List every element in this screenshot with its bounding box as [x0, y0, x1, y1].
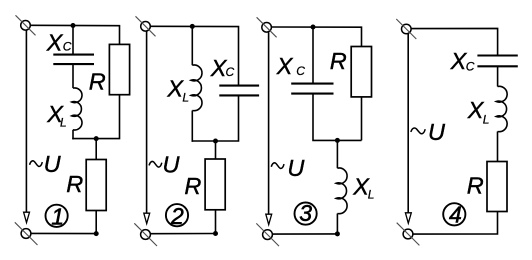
inductor XL series circuit 3	[336, 168, 347, 214]
wire series inductor upper lead circuit 3	[336, 140, 338, 168]
wire bottom rail circuit 3	[273, 233, 338, 235]
wire right branch lower lead and parallel bottom rail circuit 1	[72, 95, 119, 139]
wire capacitor lower lead and parallel bottom rail circuit 3	[313, 94, 362, 141]
resistor R parallel circuit 1	[109, 44, 129, 94]
wire top rail circuit 3 with right branch upper lead	[272, 27, 362, 47]
svg-text:L: L	[182, 91, 189, 105]
voltage arrow line circuit 4	[407, 34, 409, 213]
terminal bottom-left circuit 3	[256, 223, 279, 246]
terminal bottom-left circuit 4	[397, 223, 420, 246]
terminal bottom-left circuit 1	[15, 222, 38, 245]
wire series resistor lower lead circuit 2	[215, 210, 217, 234]
svg-text:C: C	[63, 39, 72, 53]
wire top rail circuit 4 with series branch upper lead	[411, 28, 497, 55]
voltage arrowhead circuit 1	[24, 212, 30, 222]
svg-text:C: C	[226, 65, 235, 79]
wire series resistor upper lead circuit 2	[215, 141, 217, 159]
resistor R series circuit 1	[86, 160, 106, 211]
wire bottom rail circuit 1	[31, 232, 96, 234]
svg-text:R: R	[330, 48, 347, 74]
svg-text:L: L	[483, 112, 490, 126]
svg-text:C: C	[466, 59, 475, 73]
terminal top-left circuit 1	[16, 15, 36, 35]
inductor XL circuit 2	[191, 65, 202, 111]
node junction dot parallel bottom circuit 1	[94, 136, 99, 141]
voltage arrowhead circuit 2	[144, 213, 150, 223]
svg-text:1: 1	[51, 203, 64, 229]
resistor R parallel circuit 3	[351, 47, 371, 97]
wire resistor lower lead and bottom rail circuit 4	[413, 212, 498, 235]
node junction dot bottom rail circuit 3	[335, 231, 340, 236]
capacitor XC circuit 3	[291, 84, 333, 94]
label circled number 4	[443, 201, 465, 227]
node junction dot bottom rail circuit 2	[213, 231, 218, 236]
svg-text:L: L	[60, 116, 67, 130]
inductor XL circuit 1	[72, 88, 82, 130]
svg-text:C: C	[296, 64, 305, 78]
wire bottom rail circuit 2	[151, 233, 216, 235]
label XC circuit 1	[46, 29, 72, 55]
svg-text:2: 2	[170, 203, 184, 229]
svg-text:4: 4	[449, 201, 462, 227]
node junction dot top rail circuit 3	[311, 25, 316, 30]
wire right branch lower lead circuit 3	[361, 97, 363, 140]
label XL circuit 4	[467, 97, 490, 126]
wire capacitor C1 upper lead	[72, 26, 74, 55]
label circled number 1	[46, 203, 68, 229]
wire capacitor branch upper lead circuit 3	[312, 27, 314, 84]
label ~U circuit 3	[271, 155, 305, 181]
label XL circuit 3	[352, 173, 374, 201]
label XC circuit 2	[210, 55, 235, 81]
wire top rail circuit 2 with capacitor branch upper lead	[150, 26, 238, 85]
svg-text:R: R	[467, 173, 484, 199]
svg-text:L: L	[368, 188, 375, 202]
wire inductor to parallel bottom rail circuit 1	[72, 130, 74, 140]
wire inductor branch upper lead circuit 2	[191, 26, 193, 65]
wire between capacitor and inductor circuit 4	[497, 66, 499, 86]
terminal top-left circuit 2	[136, 16, 156, 36]
voltage arrow line circuit 1	[25, 30, 27, 212]
node junction dot bottom rail circuit 1	[94, 231, 99, 236]
svg-text:3: 3	[299, 200, 312, 226]
resistor R circuit 4	[487, 162, 507, 212]
label ~U circuit 4	[411, 119, 446, 145]
voltage arrow line circuit 2	[146, 31, 148, 213]
label XL circuit 2	[166, 75, 189, 104]
terminal bottom-left circuit 2	[134, 223, 157, 246]
wire between inductor and resistor circuit 4	[497, 132, 499, 162]
label XC circuit 3	[276, 53, 306, 79]
capacitor XC circuit 1	[53, 55, 94, 65]
svg-text:R: R	[184, 173, 201, 199]
resistor R series circuit 2	[205, 159, 225, 210]
node junction dot parallel bottom circuit 2	[213, 139, 218, 144]
voltage arrowhead circuit 3	[266, 214, 272, 224]
wire series resistor lower lead circuit 1	[95, 211, 97, 234]
svg-text:U: U	[287, 155, 305, 181]
label circled number 2	[166, 203, 188, 229]
terminal top-left circuit 3	[257, 17, 277, 37]
svg-text:R: R	[89, 68, 106, 94]
capacitor XC circuit 2	[219, 86, 259, 96]
node junction dot top rail circuit 2	[190, 24, 195, 29]
wire capacitor lower lead and parallel bottom rail circuit 2	[192, 95, 239, 141]
wire series resistor upper lead circuit 1	[95, 139, 97, 160]
svg-text:X: X	[276, 53, 294, 79]
label ~U circuit 2	[149, 151, 180, 177]
wire between capacitor and inductor circuit 1	[72, 64, 74, 88]
svg-text:R: R	[66, 171, 83, 197]
label XL circuit 1	[46, 101, 66, 129]
label circled number 3	[295, 200, 317, 226]
capacitor XC circuit 4	[477, 56, 517, 67]
terminal top-left circuit 4	[396, 19, 416, 39]
svg-text:U: U	[44, 151, 62, 177]
voltage arrowhead circuit 4	[405, 213, 411, 223]
label ~U circuit 1	[30, 151, 62, 177]
svg-text:U: U	[163, 151, 181, 177]
svg-text:X: X	[46, 29, 64, 55]
label XC circuit 4	[450, 48, 475, 74]
node junction dot top rail circuit 1	[71, 23, 76, 28]
wire top rail circuit 1 with right branch upper lead	[30, 25, 119, 44]
svg-text:U: U	[428, 119, 446, 145]
wire series inductor lower lead circuit 3	[336, 214, 338, 234]
voltage arrow line circuit 3	[268, 32, 270, 214]
inductor XL circuit 4	[496, 86, 507, 131]
node junction dot parallel bottom circuit 3	[335, 138, 340, 143]
wire inductor lower lead circuit 2	[191, 111, 193, 142]
